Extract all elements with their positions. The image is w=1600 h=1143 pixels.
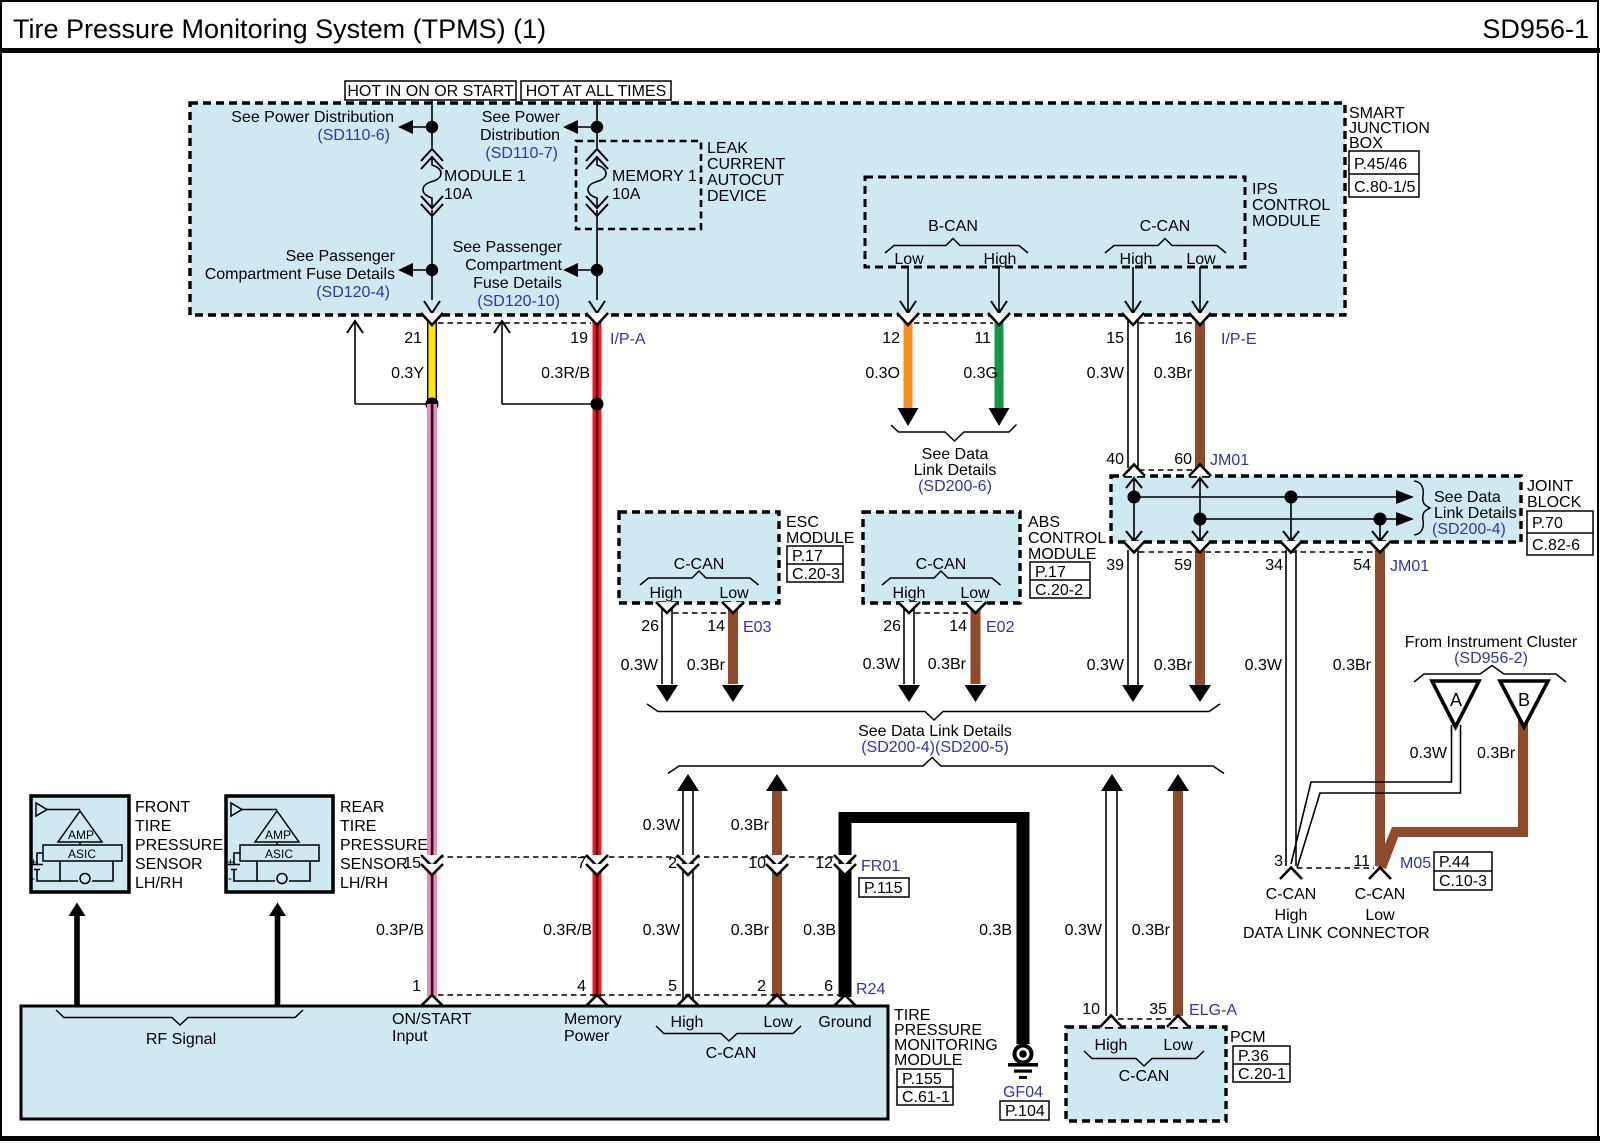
svg-text:I/P-A: I/P-A <box>610 331 646 348</box>
connector strip PCM ELG-A <box>1118 1018 1172 1020</box>
GF04 ref label P.104 <box>1000 1101 1049 1120</box>
connector chevron JM01 pin40 <box>1123 465 1145 477</box>
svg-text:P.44: P.44 <box>1439 854 1470 871</box>
connector chevron R24 pin5 <box>677 995 699 1006</box>
branch arrow to See Passenger Compartment Fuse Details (SD120-4) <box>412 269 432 271</box>
svg-text:High: High <box>1275 907 1308 924</box>
arrowhead down ABS low wire <box>965 685 987 702</box>
svg-text:Compartment Fuse Details: Compartment Fuse Details <box>205 266 395 283</box>
svg-text:0.3G: 0.3G <box>963 365 998 382</box>
wire B-CAN Low to pin12 <box>907 267 909 313</box>
svg-text:REAR: REAR <box>340 799 384 816</box>
svg-text:(SD200-4)(SD200-5): (SD200-4)(SD200-5) <box>861 739 1009 756</box>
svg-text:16: 16 <box>1174 330 1192 347</box>
svg-text:PRESSURE: PRESSURE <box>340 837 428 854</box>
svg-text:Low: Low <box>960 585 990 602</box>
svg-text:LEAK: LEAK <box>707 140 748 157</box>
connector chevron FR01 pin15 <box>421 855 443 866</box>
svg-text:21: 21 <box>404 330 422 347</box>
svg-text:C.10-3: C.10-3 <box>1439 873 1487 890</box>
svg-text:26: 26 <box>883 618 901 635</box>
svg-text:C.80-1/5: C.80-1/5 <box>1354 179 1415 196</box>
svg-text:See Data: See Data <box>922 446 989 463</box>
rear tire pressure sensor box <box>226 796 333 892</box>
svg-text:FRONT: FRONT <box>135 799 190 816</box>
arrowhead up wire to TPMS low <box>766 774 788 791</box>
svg-text:See Power Distribution: See Power Distribution <box>231 109 394 126</box>
svg-text:Fuse Details: Fuse Details <box>473 275 562 292</box>
connector chevron R24 pin2 <box>766 995 788 1006</box>
svg-text:ELG-A: ELG-A <box>1189 1002 1237 1019</box>
svg-text:Low: Low <box>1186 251 1216 268</box>
svg-text:See Data Link Details: See Data Link Details <box>858 723 1012 740</box>
joint block internal wire pin60-pin59 <box>1199 478 1201 541</box>
connector chevron ABS pin26 <box>898 602 920 613</box>
junction node module1 lower <box>426 264 438 276</box>
svg-text:0.3R/B: 0.3R/B <box>543 922 592 939</box>
svg-text:PRESSURE: PRESSURE <box>135 837 223 854</box>
connector chevron PCM pin35 ELG-A <box>1167 1016 1189 1028</box>
wire 0.3W white to PCM pin10 <box>1106 791 1117 1016</box>
svg-text:Input: Input <box>392 1028 428 1045</box>
arrowhead down orange wire <box>898 408 919 426</box>
svg-text:60: 60 <box>1174 451 1192 468</box>
svg-text:High: High <box>984 251 1017 268</box>
svg-text:High: High <box>1120 251 1153 268</box>
front tire pressure sensor box <box>30 796 129 892</box>
svg-text:GF04: GF04 <box>1003 1084 1043 1101</box>
brace for See Data Link Details (SD200-4) <box>1414 481 1430 535</box>
arrowhead up into joint block pin60 <box>1192 478 1208 488</box>
svg-text:MODULE 1: MODULE 1 <box>444 168 526 185</box>
wire 0.3Br brown to PCM pin35 ELG-A <box>1173 791 1183 1016</box>
junction node red wire <box>591 398 604 411</box>
svg-text:0.3Br: 0.3Br <box>1132 922 1171 939</box>
connector chevron pin34 <box>1280 541 1302 553</box>
svg-text:RF Signal: RF Signal <box>146 1031 216 1048</box>
svg-text:MODULE: MODULE <box>1028 546 1096 563</box>
svg-text:BLOCK: BLOCK <box>1527 494 1582 511</box>
svg-text:0.3Br: 0.3Br <box>1477 745 1516 762</box>
wire 0.3W white pin15 to JM01 pin40 <box>1128 316 1138 468</box>
wire B-CAN High to pin11 <box>998 267 1000 313</box>
svg-text:C-CAN: C-CAN <box>706 1045 757 1062</box>
junction node memory1 lower <box>591 264 603 276</box>
wire C-CAN High to pin15 <box>1132 267 1134 313</box>
wire module1 fuse to lower junction <box>431 210 433 300</box>
svg-text:B-CAN: B-CAN <box>928 218 978 235</box>
RF signal arrow to front sensor <box>69 903 86 1007</box>
connector chevron ABS pin14 E02 <box>965 602 987 613</box>
svg-text:Ground: Ground <box>818 1014 871 1031</box>
svg-text:LH/RH: LH/RH <box>135 875 183 892</box>
svg-text:Low: Low <box>1365 907 1395 924</box>
svg-text:12: 12 <box>882 330 900 347</box>
svg-text:From Instrument Cluster: From Instrument Cluster <box>1405 634 1578 651</box>
fuse MEMORY 1 10A <box>586 149 697 216</box>
brace See Data Link Details (SD200-6) <box>891 425 1017 442</box>
svg-text:See Data: See Data <box>1434 489 1501 506</box>
HOT IN ON OR START label box <box>345 81 516 100</box>
svg-text:E03: E03 <box>743 619 772 636</box>
svg-text:C-CAN: C-CAN <box>1355 886 1406 903</box>
svg-text:10A: 10A <box>612 186 641 203</box>
junction node on memory1 feed <box>591 121 603 133</box>
svg-text:ASIC: ASIC <box>265 847 293 861</box>
C-CAN brace (TPMS) <box>656 1026 801 1041</box>
C-CAN brace (ESC) <box>640 571 759 585</box>
svg-text:High: High <box>650 585 683 602</box>
arrowhead down wire59 <box>1189 685 1211 702</box>
B-CAN brace <box>885 239 1028 254</box>
svg-text:(SD120-10): (SD120-10) <box>477 293 560 310</box>
svg-text:0.3Y: 0.3Y <box>391 365 424 382</box>
svg-text:CONTROL: CONTROL <box>1028 530 1106 547</box>
svg-text:See Passenger: See Passenger <box>286 248 396 265</box>
wire 0.3Br pin59 down <box>1195 550 1205 686</box>
junction node joint block line1 at pin34 wire <box>1285 491 1298 504</box>
joint block internal wire to pin54 <box>1379 519 1381 541</box>
junction node joint block line2 at pin54 wire <box>1374 513 1387 526</box>
svg-text:14: 14 <box>949 618 967 635</box>
svg-text:P.115: P.115 <box>864 880 903 897</box>
svg-text:M05: M05 <box>1400 855 1431 872</box>
C-CAN brace (PCM) <box>1084 1051 1204 1066</box>
svg-text:CURRENT: CURRENT <box>707 156 785 173</box>
SJB ref label P.45/46 C.80-1/5 <box>1349 151 1419 197</box>
svg-text:0.3W: 0.3W <box>621 657 659 674</box>
wire from HOT AT ALL TIMES into SJB <box>596 100 598 148</box>
connector chevron pin 15 <box>1122 313 1144 325</box>
svg-text:ABS: ABS <box>1028 514 1060 531</box>
joint block internal wire pin40-pin39 <box>1133 478 1135 541</box>
M05 ref label P.44 C.10-3 <box>1434 852 1492 890</box>
svg-text:26: 26 <box>641 618 659 635</box>
connector chevron R24 pin1 <box>421 995 443 1006</box>
PCM ref label P.36 C.20-1 <box>1233 1046 1290 1082</box>
svg-text:0.3W: 0.3W <box>1245 657 1283 674</box>
ABS ref label P.17 C.20-2 <box>1030 562 1090 598</box>
svg-text:4: 4 <box>577 978 586 995</box>
svg-text:C.82-6: C.82-6 <box>1532 537 1580 554</box>
arrowhead down ESC high wire <box>656 685 678 702</box>
connector chevron ESC pin14 E03 <box>722 602 744 613</box>
fuse MODULE 1 10A <box>421 149 526 216</box>
svg-text:I/P-E: I/P-E <box>1221 331 1257 348</box>
connector chevron pin 12 <box>897 313 919 325</box>
svg-text:LH/RH: LH/RH <box>340 875 388 892</box>
junction node joint block line2 at pin59 wire <box>1194 513 1207 526</box>
wire 0.3Br pin54 down to DLC pin11 <box>1375 550 1385 866</box>
antenna symbol rear <box>231 803 242 816</box>
connector chevron pin59 <box>1189 541 1211 553</box>
connector strip I/P-E <box>1139 322 1194 324</box>
svg-text:High: High <box>1095 1037 1128 1054</box>
svg-text:0.3Br: 0.3Br <box>731 817 770 834</box>
triangle connector B from instrument cluster <box>1500 681 1548 727</box>
svg-text:0.3B: 0.3B <box>979 922 1012 939</box>
smart junction box SJB <box>190 103 1345 315</box>
wire 0.3R/B red pin19 to R24 pin4 <box>593 316 602 997</box>
sensing loop front <box>60 861 78 881</box>
svg-text:1: 1 <box>412 978 421 995</box>
svg-text:Low: Low <box>1163 1037 1193 1054</box>
svg-text:SD956-1: SD956-1 <box>1482 14 1589 44</box>
svg-text:ON/START: ON/START <box>392 1011 472 1028</box>
svg-text:0.3W: 0.3W <box>1410 745 1448 762</box>
ABS control module box <box>863 512 1020 603</box>
svg-text:R24: R24 <box>856 981 885 998</box>
arrowhead down joint block exit pin59 <box>1192 531 1208 541</box>
joint block box <box>1111 476 1521 542</box>
svg-text:59: 59 <box>1174 557 1192 574</box>
wire 0.3Br brown to TPMS C-CAN Low <box>772 791 782 1006</box>
svg-text:0.3Br: 0.3Br <box>1333 657 1372 674</box>
svg-text:19: 19 <box>570 330 588 347</box>
branch arrow to See Passenger Compartment Fuse Details (SD120-10) <box>577 269 597 271</box>
svg-text:0.3W: 0.3W <box>1065 922 1103 939</box>
svg-text:Distribution: Distribution <box>480 127 560 144</box>
svg-text:0.3W: 0.3W <box>1087 657 1125 674</box>
svg-text:SENSOR: SENSOR <box>135 856 203 873</box>
arrowhead down green wire <box>989 408 1010 426</box>
svg-text:Link Details: Link Details <box>1434 505 1517 522</box>
svg-text:ESC: ESC <box>786 514 819 531</box>
svg-text:See Passenger: See Passenger <box>453 239 563 256</box>
svg-text:0.3W: 0.3W <box>1087 365 1125 382</box>
svg-text:FR01: FR01 <box>861 858 900 875</box>
svg-text:(SD956-2): (SD956-2) <box>1454 650 1528 667</box>
svg-text:High: High <box>893 585 926 602</box>
HOT AT ALL TIMES label box <box>521 81 671 100</box>
sensing loop rear <box>257 861 275 881</box>
arrowhead down joint block exit pin54 <box>1372 531 1388 541</box>
svg-text:See Power: See Power <box>482 109 561 126</box>
connector chevron pin 11 <box>988 313 1010 325</box>
svg-text:C.20-1: C.20-1 <box>1238 1066 1286 1083</box>
svg-text:Link Details: Link Details <box>914 462 997 479</box>
svg-text:(SD120-4): (SD120-4) <box>316 284 390 301</box>
wire 0.3O orange pin12 <box>904 316 913 408</box>
wire 0.3W pin34 down to DLC pin3 <box>1286 550 1296 866</box>
svg-text:C-CAN: C-CAN <box>1119 1068 1170 1085</box>
connector strip pins 12-11 <box>914 322 993 324</box>
C-CAN brace (IPS) <box>1105 239 1226 254</box>
TPMS ref label P.155 C.61-1 <box>897 1069 953 1105</box>
svg-text:-: - <box>228 871 232 885</box>
arrowhead down ABS high wire <box>898 685 920 702</box>
ground symbol GF04 <box>1008 1046 1038 1080</box>
svg-text:C-CAN: C-CAN <box>1140 218 1191 235</box>
svg-text:C.20-3: C.20-3 <box>792 566 840 583</box>
svg-text:DATA LINK CONNECTOR: DATA LINK CONNECTOR <box>1243 925 1430 942</box>
connector chevron DLC pin3 <box>1280 868 1302 880</box>
joint block internal bus line 2 <box>1200 518 1396 520</box>
arrowhead up wire to PCM high <box>1101 774 1123 791</box>
svg-text:BOX: BOX <box>1349 135 1383 152</box>
svg-text:10A: 10A <box>444 186 473 203</box>
svg-text:(SD110-6): (SD110-6) <box>317 127 390 144</box>
svg-text:HOT AT ALL TIMES: HOT AT ALL TIMES <box>526 83 667 100</box>
arrowhead down wire39 <box>1122 685 1144 702</box>
connector chevron PCM pin10 <box>1100 1016 1122 1028</box>
title bar separator <box>0 48 1600 53</box>
svg-text:(SD200-4): (SD200-4) <box>1432 521 1506 538</box>
svg-text:P.104: P.104 <box>1005 1103 1045 1120</box>
svg-text:P.70: P.70 <box>1532 515 1563 532</box>
connector chevron ESC pin26 <box>656 602 678 613</box>
RF signal arrow to rear sensor <box>269 903 286 1007</box>
svg-text:MODULE: MODULE <box>1252 213 1320 230</box>
svg-text:0.3W: 0.3W <box>863 656 901 673</box>
connector chevron pin 19 I/P-A <box>586 313 608 325</box>
svg-text:Low: Low <box>763 1014 793 1031</box>
wire 0.3Br brown from triangle B to DLC pin11 <box>1376 720 1528 869</box>
svg-text:PCM: PCM <box>1230 1029 1266 1046</box>
wire 0.3W pin39 down <box>1128 550 1138 686</box>
wire C-CAN Low to pin16 <box>1199 267 1201 313</box>
wire 0.3G green pin11 <box>995 316 1004 408</box>
svg-text:34: 34 <box>1265 557 1283 574</box>
wire 0.3P/B pink to R24 pin1 <box>427 404 437 997</box>
svg-text:40: 40 <box>1106 451 1124 468</box>
connector strip I/P-A <box>438 322 591 324</box>
connector chevron pin 21 <box>421 313 443 325</box>
PCM box <box>1066 1027 1226 1121</box>
branch up-arrow at yellow junction <box>354 322 356 404</box>
svg-text:High: High <box>671 1014 704 1031</box>
amp symbol front <box>58 811 102 842</box>
arrowhead up wire to PCM low <box>1167 774 1189 791</box>
svg-text:11: 11 <box>974 330 991 347</box>
triangle connector A from instrument cluster <box>1432 681 1479 727</box>
svg-text:+: + <box>227 855 234 869</box>
connector strip E02 <box>915 612 969 614</box>
connector strip FR01 <box>438 856 838 858</box>
svg-text:ASIC: ASIC <box>68 847 96 861</box>
wire 0.3W white ABS pin26 <box>904 604 914 684</box>
svg-text:15: 15 <box>1106 330 1124 347</box>
IPS control module box <box>865 177 1245 267</box>
junction node yellow/pink <box>426 398 439 411</box>
bracket over triangles A and B <box>1414 666 1566 683</box>
connector chevron pin 16 I/P-E <box>1189 313 1211 325</box>
RF Signal brace <box>56 1010 303 1025</box>
arrowhead down ESC low wire <box>722 685 744 702</box>
svg-text:3: 3 <box>1274 853 1283 870</box>
svg-text:MODULE: MODULE <box>786 530 854 547</box>
tire pressure monitoring module box <box>21 1006 888 1119</box>
svg-text:54: 54 <box>1353 557 1371 574</box>
svg-text:Tire Pressure Monitoring Syste: Tire Pressure Monitoring System (TPMS) (… <box>13 14 546 44</box>
C-CAN brace (ABS) <box>882 571 1001 585</box>
svg-text:AUTOCUT: AUTOCUT <box>707 172 784 189</box>
svg-text:12: 12 <box>815 855 833 872</box>
svg-text:JM01: JM01 <box>1210 452 1249 469</box>
connector strip M05 <box>1297 867 1374 869</box>
connector chevron R24 pin6 <box>834 995 856 1006</box>
leak current autocut device box <box>576 141 701 229</box>
wire 0.3W white from triangle A to DLC pin3 <box>1291 725 1461 868</box>
connector chevron DLC pin11 <box>1369 868 1391 880</box>
svg-text:HOT IN ON OR START: HOT IN ON OR START <box>347 83 513 100</box>
svg-text:A: A <box>1450 690 1462 710</box>
wire 0.3Br brown ABS pin14 <box>971 604 981 684</box>
wire 0.3B black ground path TPMS pin6 to GF04 <box>839 812 1030 1044</box>
wire 0.3W white to TPMS C-CAN High <box>683 791 693 1006</box>
svg-text:0.3Br: 0.3Br <box>928 656 967 673</box>
arrowhead pin19 exit inside SJB <box>589 301 605 313</box>
svg-text:0.3Br: 0.3Br <box>1154 365 1193 382</box>
svg-text:E02: E02 <box>986 619 1015 636</box>
svg-text:(SD110-7): (SD110-7) <box>485 145 558 162</box>
svg-text:0.3W: 0.3W <box>643 817 681 834</box>
svg-text:0.3Br: 0.3Br <box>1154 657 1193 674</box>
svg-text:P.17: P.17 <box>792 548 823 565</box>
joint block ref label P.70 C.82-6 <box>1527 511 1593 555</box>
svg-text:7: 7 <box>577 855 586 872</box>
svg-text:C-CAN: C-CAN <box>1266 886 1317 903</box>
amp symbol rear <box>255 811 299 842</box>
branch arrow to See Power Distribution (SD110-6) <box>412 126 432 128</box>
svg-text:0.3O: 0.3O <box>865 365 900 382</box>
joint block internal wire to pin34 <box>1290 497 1292 541</box>
svg-text:10: 10 <box>748 855 766 872</box>
asic block front <box>43 845 122 861</box>
connector chevron R24 pin4 <box>586 995 608 1006</box>
svg-text:-: - <box>31 871 35 885</box>
connector chevron FR01 pin10 <box>766 855 788 866</box>
arrowhead up into joint block pin40 <box>1126 478 1142 488</box>
svg-text:IPS: IPS <box>1252 181 1278 198</box>
svg-text:39: 39 <box>1106 557 1124 574</box>
asic block rear <box>240 845 319 861</box>
svg-text:Power: Power <box>564 1028 610 1045</box>
branch arrow to See Power Distribution (SD110-7) <box>577 126 597 128</box>
svg-text:0.3Br: 0.3Br <box>731 922 770 939</box>
wire 0.3Y yellow pin21 <box>427 316 437 405</box>
antenna symbol front <box>36 803 47 816</box>
svg-text:2: 2 <box>668 855 677 872</box>
ESC module box <box>619 512 779 603</box>
svg-text:P.17: P.17 <box>1035 564 1066 581</box>
svg-text:B: B <box>1518 690 1530 710</box>
svg-text:DEVICE: DEVICE <box>707 188 767 205</box>
wire 0.3Br brown ESC pin14 <box>728 604 738 684</box>
wire 0.3W white ESC pin26 <box>662 604 672 684</box>
arrowhead down joint block exit pin39 <box>1126 531 1142 541</box>
svg-text:0.3R/B: 0.3R/B <box>541 365 590 382</box>
svg-text:35: 35 <box>1149 1001 1167 1018</box>
wire memory1 fuse to lower junction <box>596 210 598 300</box>
FR01 ref label P.115 <box>859 878 909 897</box>
svg-text:SENSOR: SENSOR <box>340 856 408 873</box>
svg-text:MODULE: MODULE <box>894 1052 962 1069</box>
svg-text:AMP: AMP <box>68 828 94 842</box>
svg-text:CONTROL: CONTROL <box>1252 197 1330 214</box>
arrowhead up wire to TPMS high <box>677 774 699 791</box>
svg-text:0.3B: 0.3B <box>803 922 836 939</box>
svg-text:TIRE: TIRE <box>135 818 171 835</box>
connector chevron FR01 pin7 <box>586 855 608 866</box>
svg-text:P.45/46: P.45/46 <box>1354 156 1407 173</box>
svg-text:Low: Low <box>719 585 749 602</box>
svg-text:AMP: AMP <box>265 828 291 842</box>
wire 0.3Br brown pin16 to JM01 pin60 <box>1195 316 1205 468</box>
svg-text:Low: Low <box>894 251 924 268</box>
connector strip JM01 bottom <box>1139 551 1374 553</box>
svg-text:TIRE: TIRE <box>340 818 376 835</box>
